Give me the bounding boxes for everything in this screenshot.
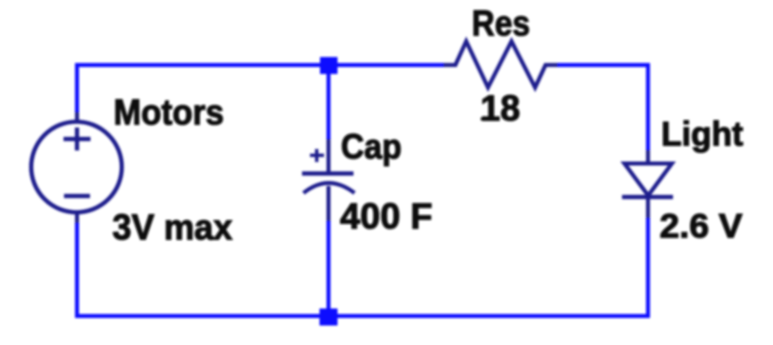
wire top-left and top run	[77, 65, 446, 114]
diode triangle	[624, 164, 672, 196]
voltage source lower lead (dark)	[75, 212, 79, 223]
svg-text:400 F: 400 F	[340, 196, 432, 237]
capacitor upper lead (dark)	[327, 139, 331, 172]
wire capacitor lower lead	[327, 219, 331, 315]
svg-text:2.6 V: 2.6 V	[660, 207, 743, 245]
voltage source plus sign	[64, 128, 91, 151]
node junction bottom	[320, 309, 338, 326]
diode D1 upper lead (dark)	[646, 150, 650, 164]
diode lower lead (dark)	[646, 197, 650, 218]
svg-text:3V max: 3V max	[112, 207, 232, 248]
wire capacitor upper lead	[327, 66, 331, 142]
svg-text:Cap: Cap	[341, 127, 402, 166]
capacitor polarity plus	[310, 149, 324, 162]
capacitor top plate	[302, 171, 354, 175]
wire top-right corner down to diode	[556, 65, 648, 154]
diode cathode bar	[622, 195, 673, 199]
node junction top	[320, 57, 338, 74]
svg-text:18: 18	[480, 88, 520, 129]
capacitor curved bottom plate	[304, 183, 355, 193]
resistor R zigzag	[444, 41, 558, 87]
svg-text:Res: Res	[472, 3, 530, 44]
voltage source V1 circle	[31, 122, 122, 213]
wire bottom U (diode to source)	[77, 216, 648, 316]
voltage source minus sign	[64, 194, 90, 198]
capacitor lower lead (dark)	[327, 186, 331, 221]
svg-text:Motors: Motors	[114, 92, 225, 133]
voltage source upper lead (dark)	[75, 112, 79, 122]
svg-text:Light: Light	[661, 115, 743, 153]
